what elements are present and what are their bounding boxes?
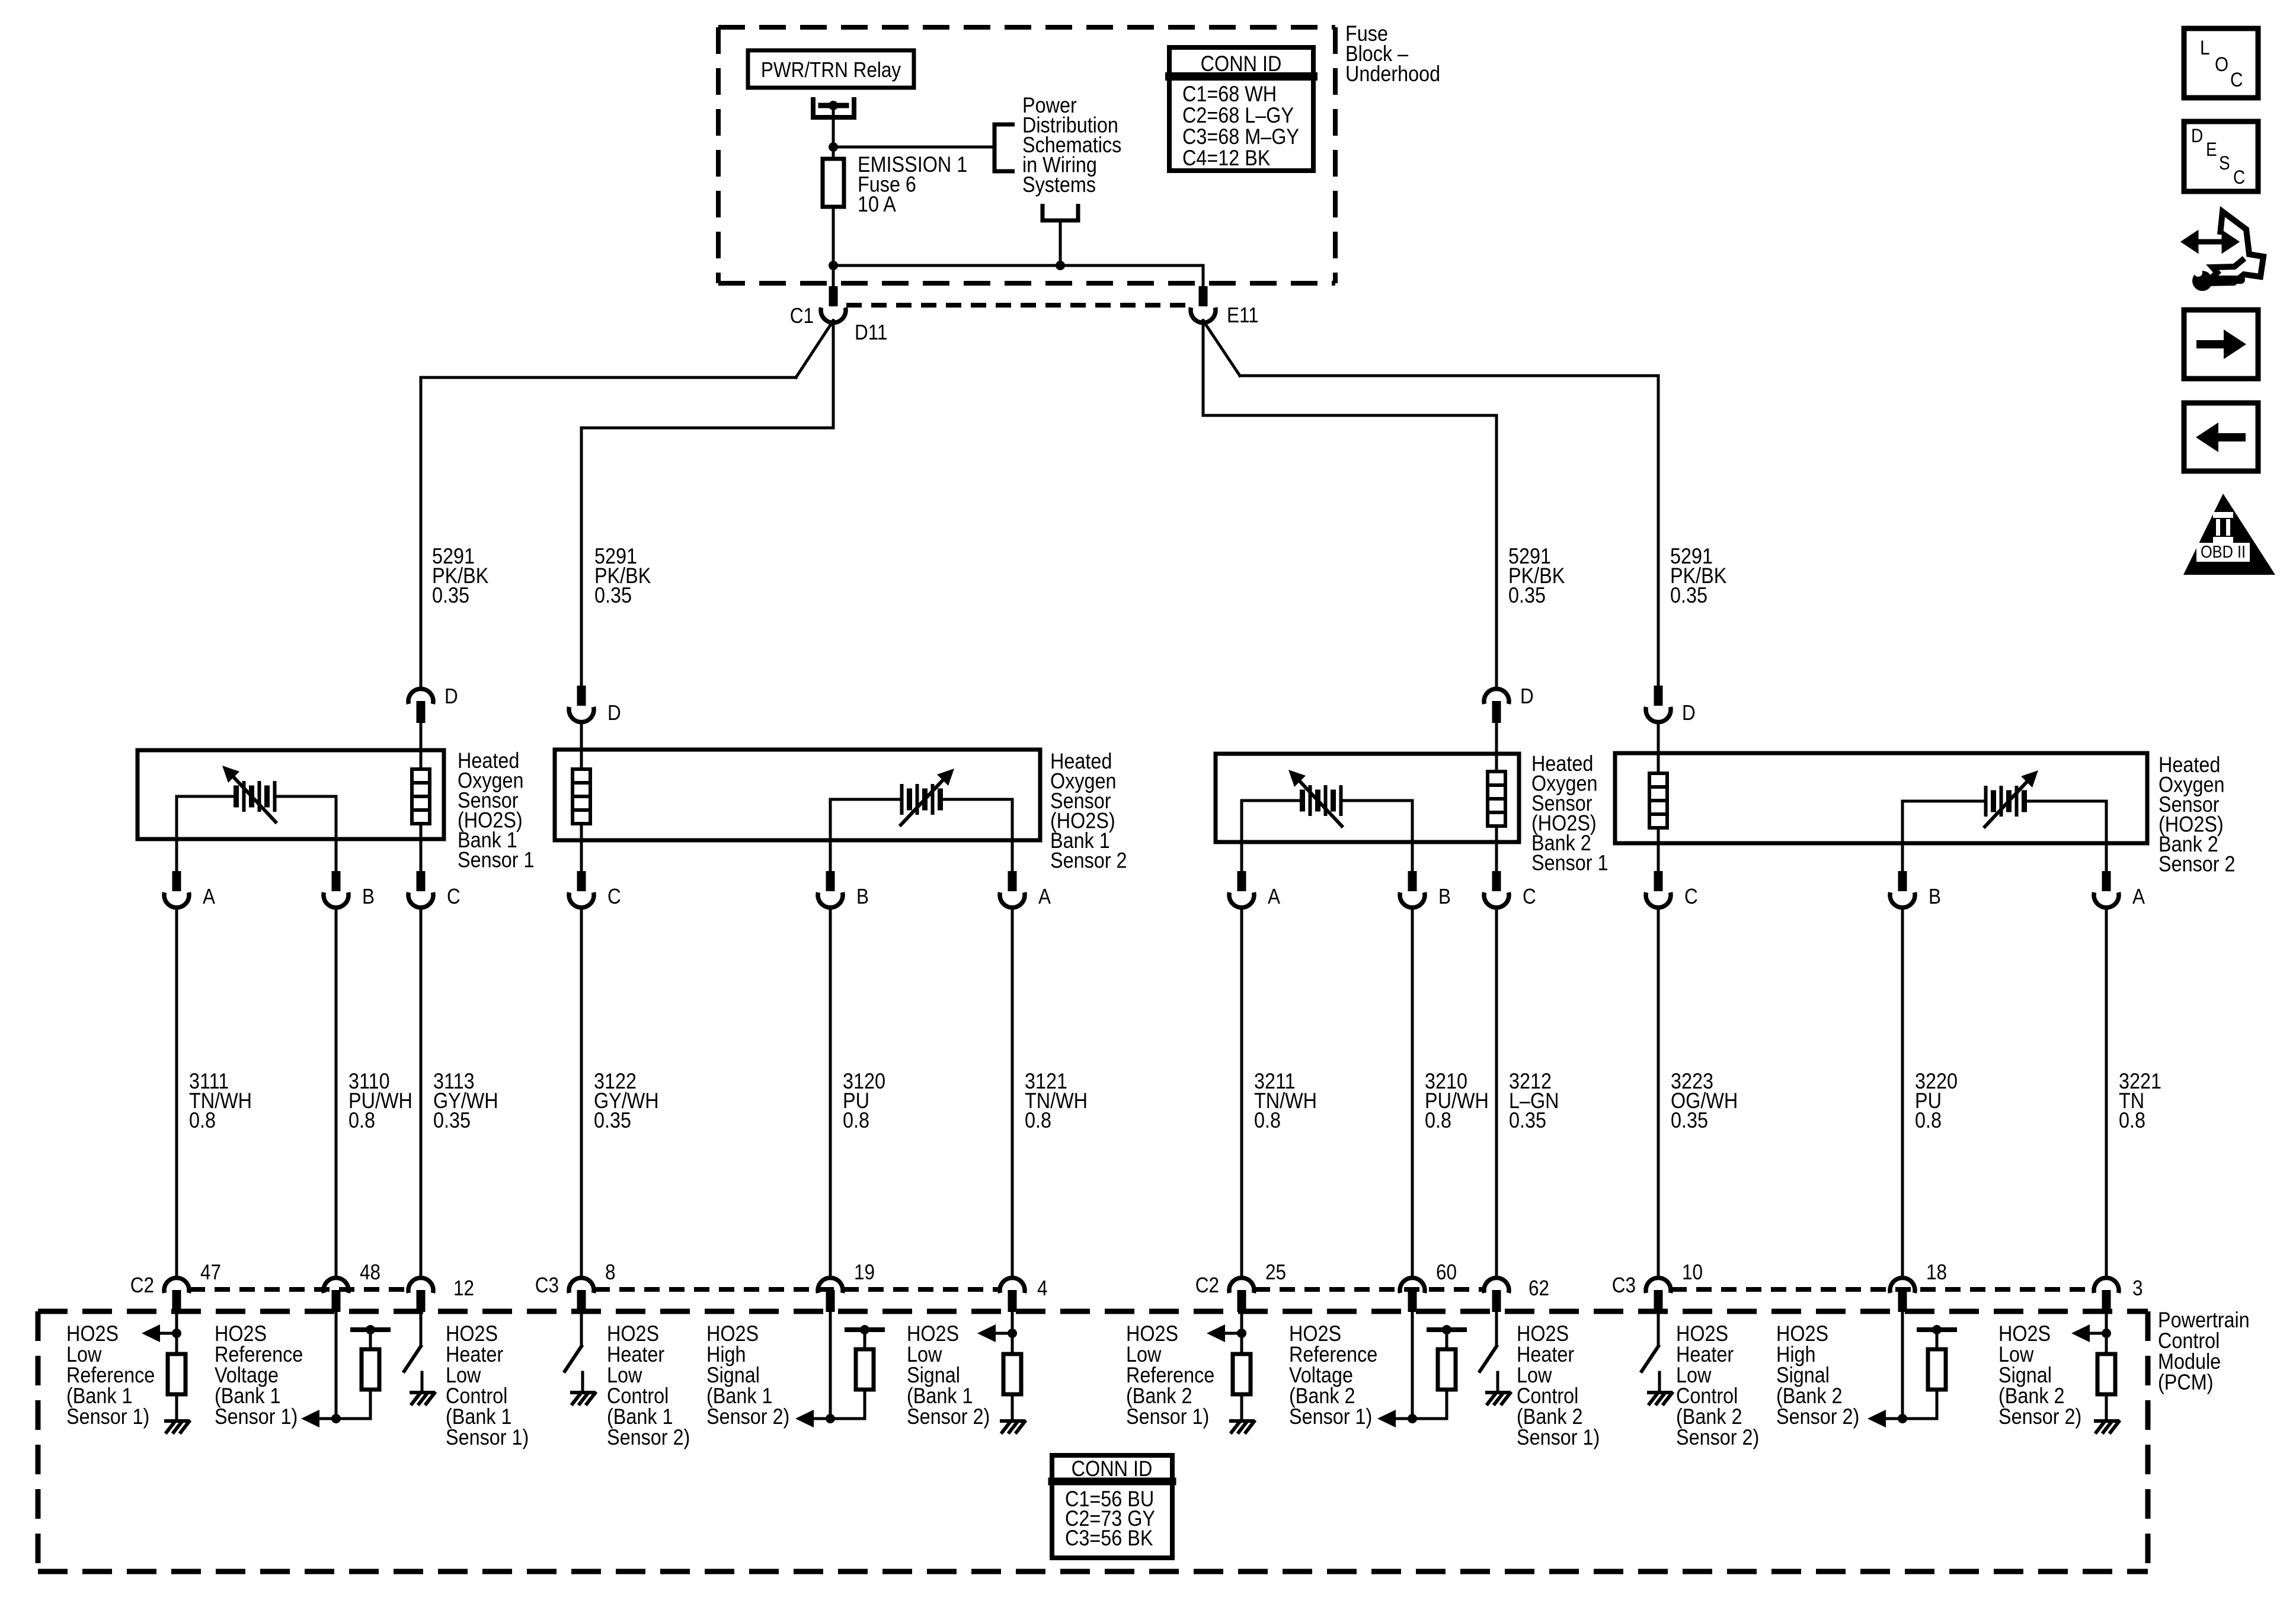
wire sensor box to connector C at x710 [420,839,423,871]
svg-text:C3: C3 [1612,1273,1636,1297]
icon LOC box [2184,28,2258,98]
resistor and ground pin 25 HO2S low reference b2s1 [1240,1311,1243,1354]
connector pin A at x1708 [1008,871,1017,891]
svg-text:18: 18 [1926,1260,1947,1284]
svg-text:A: A [203,885,215,908]
connector pin B at x567 [332,871,341,891]
wire heater to pin C bank1 sensor1 [420,824,423,839]
wire left branch vertical to D bank1 sensor1 [420,377,423,689]
wire battery left to pin A bank2 sensor1 [1242,799,1302,802]
svg-text:12: 12 [453,1276,474,1300]
heater element bank2 sensor2 [1649,773,1667,828]
wire bus to E11 [1202,265,1205,286]
wire 3120 PU [829,907,832,1278]
svg-text:O: O [2215,53,2228,75]
connector pin B at x3210 [1898,871,1907,891]
pcm dashed box Powertrain Control Module [38,1309,2148,1314]
wire second branch horizontal [581,427,833,430]
connector C1 pin D11 [829,286,838,306]
svg-text:C1: C1 [790,304,814,328]
wire junction to power distribution bracket [833,146,994,149]
wire battery right to pin B bank2 sensor1 [1341,799,1412,802]
icon back arrow box [2184,403,2258,471]
svg-text:A: A [2132,885,2145,908]
wire sensor box to connector B at x2383 [1411,842,1414,871]
connector pin B at x1401 [826,871,835,891]
resistor pullup pin 18 HO2S high signal b2s2 [1901,1311,1904,1419]
relay terminal bracket [813,97,854,117]
wire 3212 L–GN [1495,907,1498,1278]
resistor pullup pin 19 HO2S high signal b1s2 [829,1311,832,1419]
wire sensor box to connector C at x2798 [1657,843,1660,871]
wire 3113 GY/WH [420,907,423,1278]
icon OBD II triangle [2183,494,2275,575]
connector id table CONN ID underhood [1169,47,1313,171]
svg-text:D11: D11 [855,321,887,344]
wire sensor box to connector B at x3210 [1901,843,1904,871]
connector pin A at x2095 [1237,871,1246,891]
wire connector dotted line pcm group3 [1255,1287,1483,1292]
wire heater to pin C bank2 sensor2 [1657,828,1660,843]
icon vehicle service symbol [2185,235,2235,249]
wire second branch vertical to D bank1 sensor2 [580,428,583,686]
connector pcm pin 3 [2094,1278,2119,1293]
resistor and ground pin 3 HO2S low signal b2s2 [2105,1311,2108,1354]
svg-text:S: S [2219,153,2230,174]
wire 3211 TN/WH [1240,907,1243,1278]
svg-text:D: D [1520,684,1534,708]
battery element bank2 sensor1 [1300,792,1305,809]
bracket to Power Distribution note [994,124,1015,171]
switch driver pin 62 heater low control b2s1 [1495,1311,1498,1346]
wire connector dotted line top [846,303,1190,308]
resistor pullup pin 60 HO2S reference voltage b2s1 [1411,1311,1414,1419]
sensor box HO2S bank1 sensor2 [555,750,1040,840]
wire 3220 PU [1901,907,1904,1278]
svg-text:8: 8 [605,1260,616,1284]
svg-text:E: E [2206,139,2217,160]
wire left branch horizontal [421,376,796,379]
battery element bank2 sensor2 [1984,788,1988,815]
connector pcm pin 8 [569,1278,594,1293]
svg-text:E11: E11 [1227,303,1259,327]
wire fuse to bus junction [832,207,835,265]
resistor and ground pin 4 HO2S low signal b1s2 [1011,1311,1014,1354]
wire bus horizontal [833,264,1203,267]
wire battery left to pin B bank1 sensor2 [830,798,901,801]
svg-text:25: 25 [1265,1260,1286,1284]
relay K PWR/TRN Relay box [748,50,914,88]
icon DESC box [2184,121,2258,191]
node junction at relay output [829,142,838,152]
wire sensor box to connector A at x298 [175,839,178,871]
svg-text:60: 60 [1436,1260,1457,1284]
svg-text:4: 4 [1037,1276,1048,1300]
connector pcm pin 48 [324,1278,348,1293]
svg-text:B: B [1929,885,1941,908]
connector pcm pin 10 [1646,1278,1671,1293]
sensor box HO2S bank2 sensor1 [1216,754,1519,842]
wire third branch horizontal [1203,414,1496,417]
connector pcm pin 4 [1000,1278,1025,1293]
wire relay to junction [832,108,835,147]
icon forward arrow box [2184,310,2258,379]
connector pin E11 [1199,286,1208,306]
wire sensor box to connector B at x567 [335,839,338,871]
resistor pullup pin 48 HO2S reference voltage b1s1 [335,1311,338,1419]
connector id table CONN ID pcm [1052,1455,1172,1558]
connector pcm pin 19 [818,1278,843,1293]
svg-text:C: C [1684,885,1698,908]
connector pin C at x710 [417,871,426,891]
connector pcm pin 60 [1400,1278,1425,1293]
wire D11 down [832,321,835,428]
svg-text:B: B [856,885,869,908]
switch driver pin 10 heater low control b2s2 [1657,1311,1660,1346]
fuse block underhood dashed box [718,25,1335,30]
connector D bank2 sensor1 [1484,689,1509,704]
connector pin B at x2383 [1408,871,1417,891]
connector pin C at x981 [577,871,586,891]
sensor box HO2S bank1 sensor1 [137,750,444,839]
svg-text:PWR/TRN Relay: PWR/TRN Relay [761,58,901,82]
wire battery left to pin B bank2 sensor2 [1902,800,1985,803]
wire E11 diagonal to right branch [1203,321,1240,376]
svg-text:C: C [2230,68,2243,91]
wire E11 down [1202,321,1205,415]
connector pin C at x2798 [1654,871,1663,891]
svg-text:CONN ID: CONN ID [1201,52,1282,76]
wire junction to fuse [832,147,835,159]
connector pin A at x298 [172,871,181,891]
wire bus to C1 [832,265,835,286]
wire sensor box to connector C at x2525 [1495,842,1498,871]
wire sensor box to connector A at x1708 [1011,840,1014,871]
connector pin A at x3554 [2102,871,2111,891]
wire D to heater bank1 sensor1 [420,723,423,769]
svg-text:D: D [1682,701,1696,725]
heater element bank1 sensor1 [412,769,430,824]
svg-text:A: A [1268,885,1280,908]
connector pcm pin 12 [408,1278,433,1293]
wire battery right to pin B bank1 sensor1 [275,795,336,798]
wire 3221 TN [2105,907,2108,1278]
node bus junction mid [1056,261,1065,270]
wire connector dotted line pcm group4 [1671,1287,2093,1292]
svg-text:D: D [2191,126,2203,146]
svg-text:C: C [447,885,461,908]
wire 3122 GY/WH [580,907,583,1278]
connector pcm pin 47 [164,1278,189,1293]
resistor and ground pin 47 HO2S low reference b1s1 [175,1311,178,1354]
fuse F6 EMISSION 1 10A [823,159,844,207]
svg-text:C: C [1523,885,1536,908]
switch driver pin 8 heater low control b1s2 [580,1311,583,1346]
wire power distribution drop [1043,204,1078,220]
connector pcm pin 62 [1484,1278,1509,1293]
svg-text:3: 3 [2132,1276,2143,1300]
battery element bank1 sensor1 [234,788,239,805]
wire D to heater bank2 sensor1 [1495,723,1498,772]
svg-text:OBD II: OBD II [2201,542,2246,561]
heater element bank1 sensor2 [573,769,590,824]
svg-text:C2: C2 [130,1273,154,1297]
svg-text:C3: C3 [535,1273,559,1297]
switch driver pin 12 heater low control b1s1 [420,1311,423,1346]
svg-text:B: B [1438,885,1451,908]
wire 3110 PU/WH [335,907,338,1278]
wire battery left to pin A bank1 sensor1 [177,795,236,798]
svg-text:A: A [1038,885,1051,908]
wire heater to pin C bank1 sensor2 [580,824,583,840]
sensor box HO2S bank2 sensor2 [1615,753,2147,843]
wire battery right to pin A bank1 sensor2 [941,798,1012,801]
wire 3111 TN/WH [175,907,178,1278]
connector D bank1 sensor1 [408,689,433,704]
wire 3223 OG/WH [1657,907,1660,1278]
svg-text:47: 47 [200,1260,221,1284]
svg-text:L: L [2200,36,2210,59]
connector D bank2 sensor2 [1654,686,1663,706]
node bus junction left [829,261,838,270]
heater element bank2 sensor1 [1488,772,1505,826]
wire 3210 PU/WH [1411,907,1414,1278]
svg-text:CONN ID: CONN ID [1072,1457,1153,1481]
svg-text:D: D [445,684,458,708]
wire heater to pin C bank2 sensor1 [1495,826,1498,842]
svg-text:C: C [2233,167,2245,188]
wire sensor box to connector C at x981 [580,840,583,871]
wire D to heater bank2 sensor2 [1657,722,1660,773]
wire sensor box to connector A at x3554 [2105,843,2108,871]
wire battery right to pin A bank2 sensor2 [2025,800,2106,803]
svg-text:62: 62 [1528,1276,1549,1300]
svg-text:C2: C2 [1195,1273,1219,1297]
svg-text:D: D [607,701,621,725]
battery element bank1 sensor2 [900,786,904,813]
connector pcm pin 18 [1890,1278,1915,1293]
wire right branch vertical to D bank2 sensor2 [1657,376,1660,686]
wire sensor box to connector A at x2095 [1240,842,1243,871]
wire 3121 TN/WH [1011,907,1014,1278]
wire right branch horizontal [1240,375,1658,377]
svg-text:C1=56 BUC2=73 GYC3=56 BK: C1=56 BUC2=73 GYC3=56 BK [1065,1487,1155,1550]
connector D bank1 sensor2 [577,686,586,706]
wire connector dotted line pcm group2 [594,1287,999,1292]
svg-text:B: B [362,885,375,908]
svg-text:19: 19 [854,1260,875,1284]
connector pcm pin 25 [1229,1278,1254,1293]
connector pin C at x2525 [1492,871,1501,891]
svg-text:C: C [607,885,621,908]
wire sensor box to connector B at x1401 [829,840,832,871]
wire D11 diagonal to left branch [796,321,833,377]
wire D to heater bank1 sensor2 [580,722,583,769]
svg-text:10: 10 [1682,1260,1703,1284]
wire third branch vertical to D bank2 sensor1 [1495,415,1498,689]
wire connector dotted line pcm group1 [190,1287,408,1292]
svg-text:48: 48 [360,1260,380,1284]
